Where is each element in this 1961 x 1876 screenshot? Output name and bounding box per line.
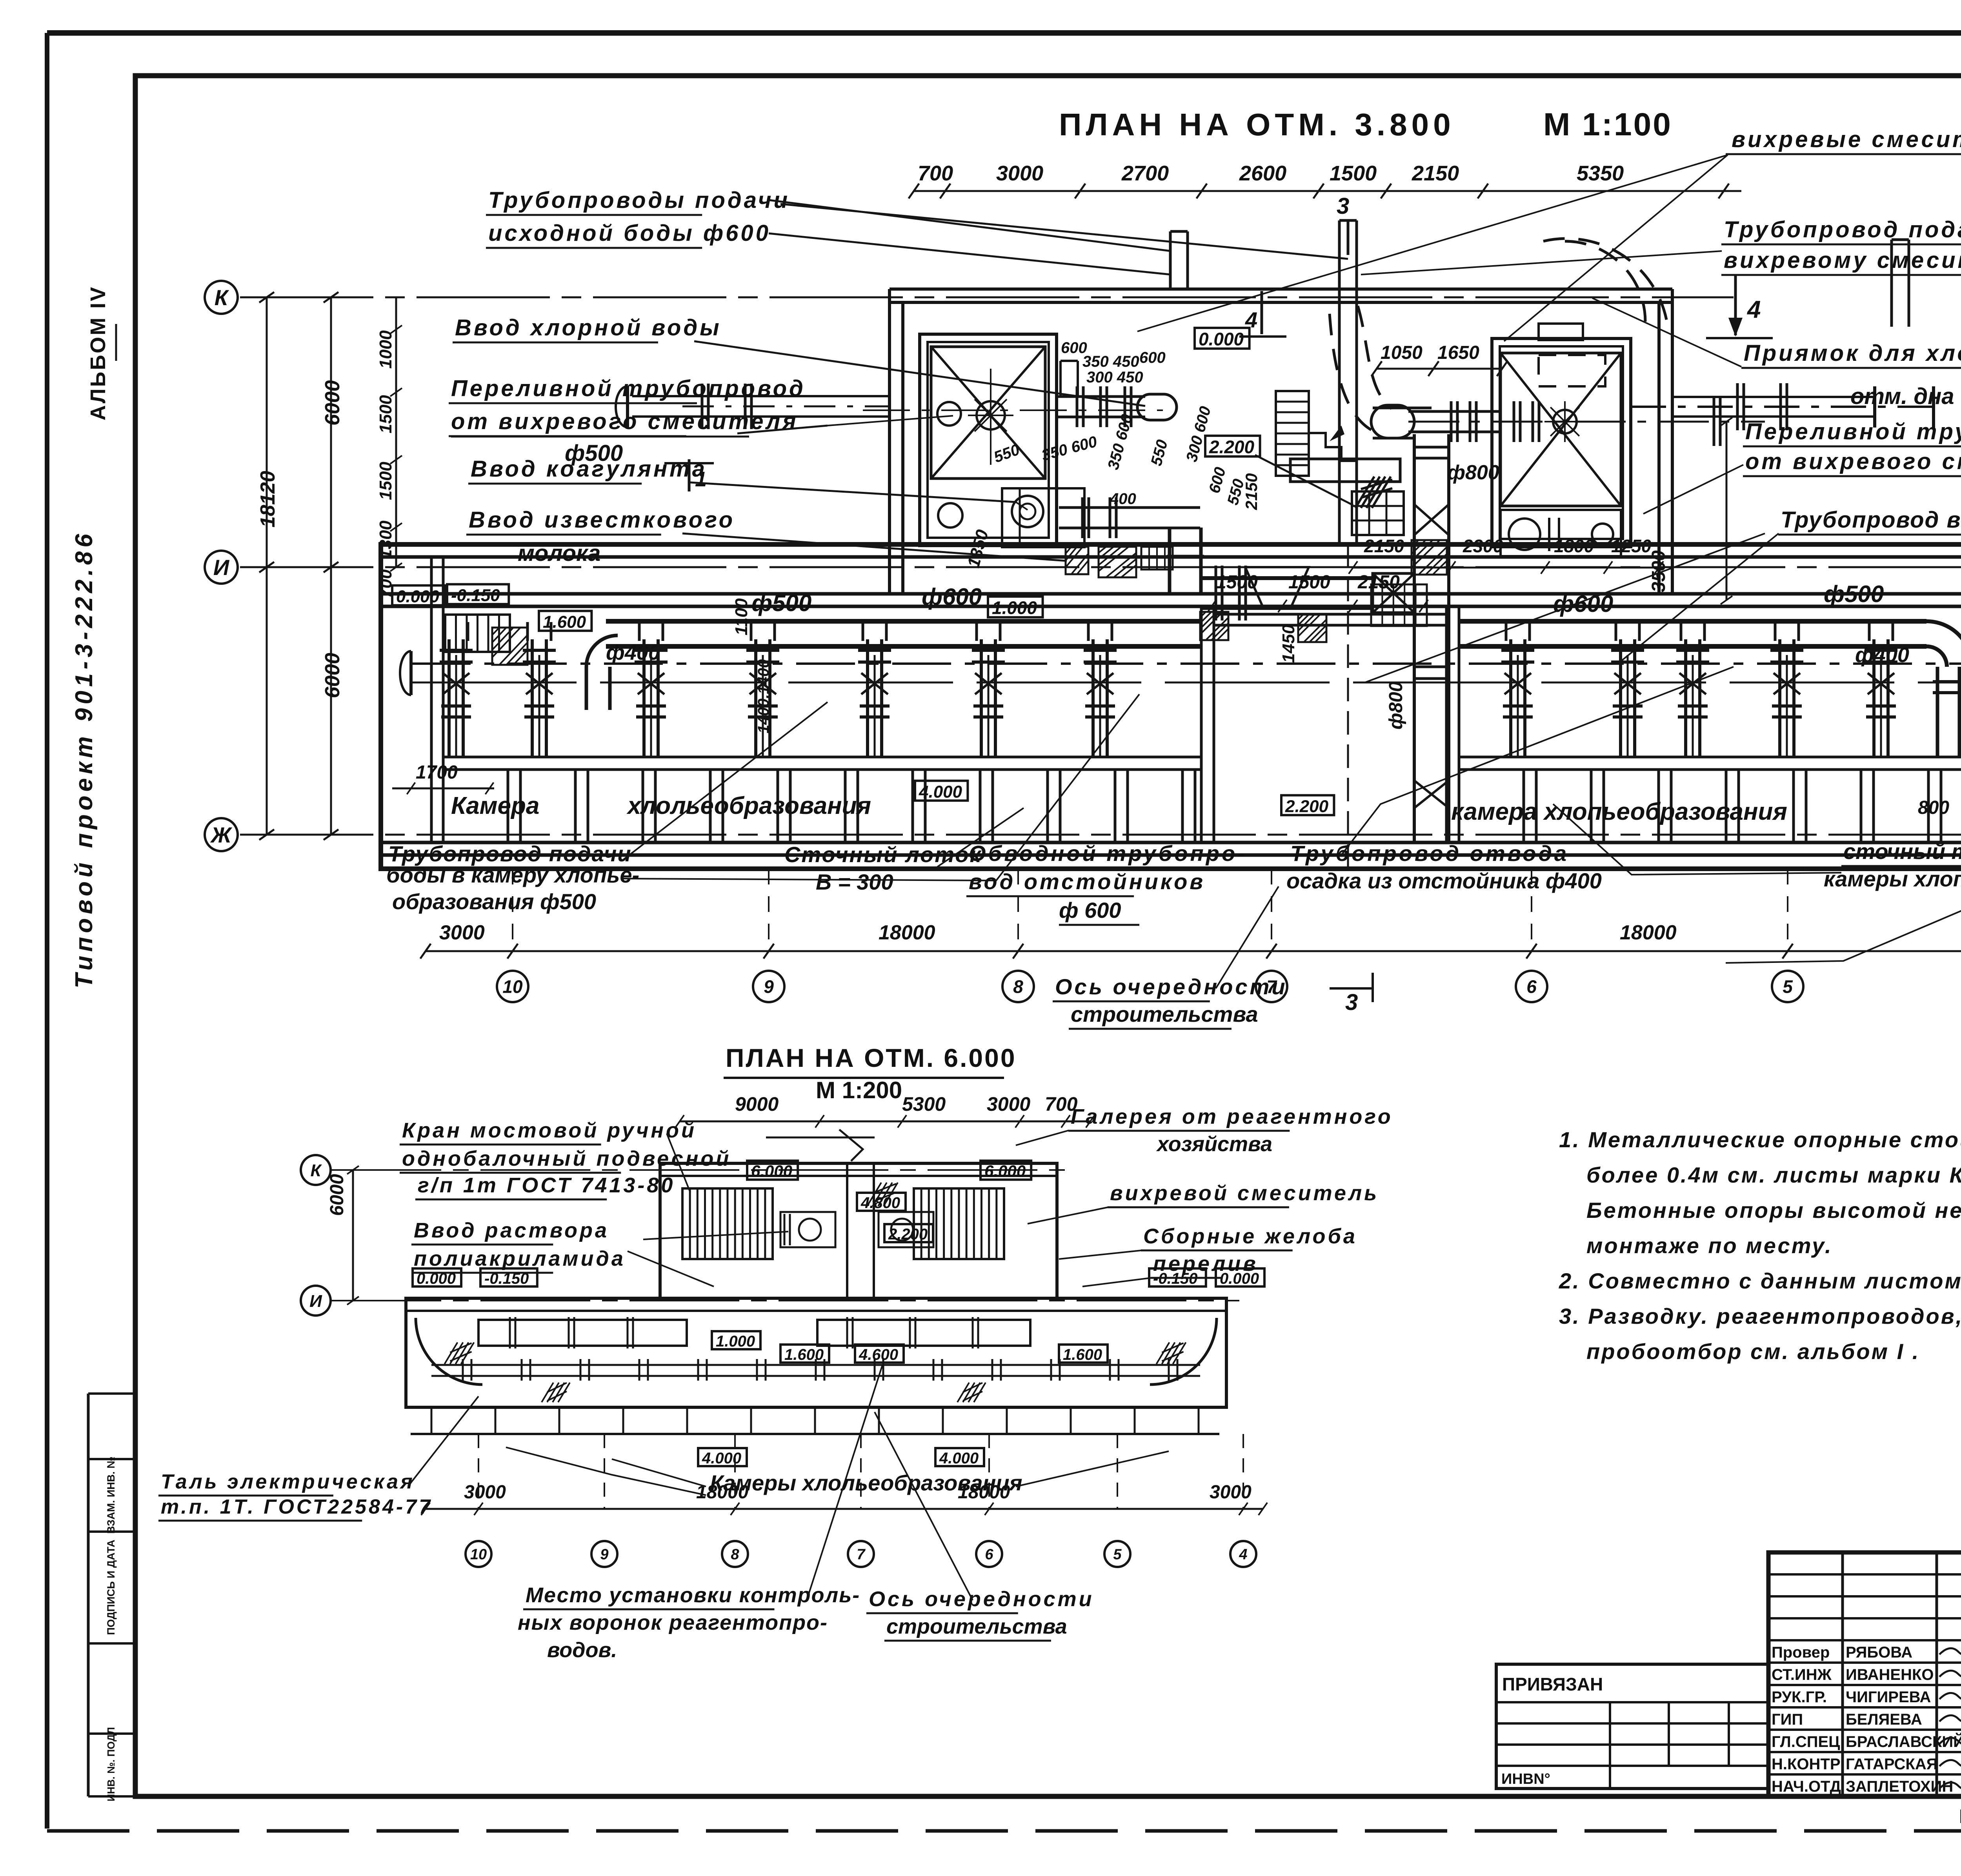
lower pipe run to center tee — [1201, 576, 1373, 580]
svg-text:3: 3 — [1337, 193, 1349, 219]
svg-text:4.600: 4.600 — [859, 1346, 898, 1363]
svg-text:вихревые смесители: вихревые смесители — [1732, 127, 1961, 152]
svg-text:Камеры хлольеобразования: Камеры хлольеобразования — [710, 1470, 1022, 1495]
svg-text:3000: 3000 — [1210, 1482, 1252, 1503]
svg-text:БРАСЛАВСКИЙ: БРАСЛАВСКИЙ — [1846, 1732, 1961, 1750]
svg-text:6000: 6000 — [321, 380, 344, 426]
svg-text:водов.: водов. — [547, 1638, 617, 1662]
svg-text:Трубопроводы подачи: Трубопроводы подачи — [488, 187, 790, 213]
elevation box 1.000 — [988, 597, 1043, 617]
svg-text:7: 7 — [857, 1547, 866, 1563]
svg-text:1.600: 1.600 — [784, 1346, 824, 1363]
svg-text:БЕЛЯЕВА: БЕЛЯЕВА — [1846, 1711, 1922, 1728]
svg-text:ф800: ф800 — [1386, 681, 1406, 730]
elevation boxes basin left — [392, 586, 445, 606]
center vertical line through basin — [1347, 544, 1349, 869]
stairs at center — [1276, 391, 1309, 476]
plan2 top dimension line — [680, 1121, 1090, 1123]
svg-text:КОПИРОВАЛ: КОРШУНОВА: КОПИРОВАЛ: КОРШУНОВА — [1959, 1805, 1961, 1827]
svg-text:РЯБОВА: РЯБОВА — [1846, 1644, 1912, 1661]
svg-text:камера хлопьеобразования: камера хлопьеобразования — [1451, 798, 1787, 825]
plan2 basin corner arc left — [416, 1318, 482, 1385]
sheet outer border — [47, 30, 1961, 36]
svg-text:1.600: 1.600 — [543, 612, 586, 631]
plan2 axis circles — [466, 1541, 491, 1567]
svg-text:Ж: Ж — [210, 822, 233, 847]
svg-text:Трубопровод отвода: Трубопровод отвода — [1290, 841, 1569, 866]
svg-text:И: И — [309, 1292, 322, 1311]
plan1 left vertical dimension chain — [266, 297, 268, 835]
vortex mixer left - tank with X bracing — [931, 347, 1045, 479]
riser pipe left of center — [1169, 231, 1172, 289]
plan2 vertical dim 6000 — [352, 1170, 354, 1301]
plan2 hatchmarks — [445, 1343, 458, 1364]
svg-text:вихревой смеситель: вихревой смеситель — [1110, 1181, 1379, 1205]
svg-text:6: 6 — [985, 1547, 993, 1563]
svg-text:ИВАНЕНКО: ИВАНЕНКО — [1846, 1666, 1934, 1683]
plan1 axis number circles — [497, 971, 528, 1002]
svg-text:4.000: 4.000 — [919, 782, 962, 801]
leader lines raw water — [769, 233, 1171, 275]
plan2 crane beam left (hatched) — [682, 1188, 773, 1259]
chlorine pit (dashed) — [1539, 324, 1583, 340]
elevation boxes basin bottom — [915, 781, 968, 801]
svg-text:Приямок для хлоропроводов: Приямок для хлоропроводов — [1744, 340, 1961, 366]
svg-text:образования ф500: образования ф500 — [392, 889, 596, 914]
right riser pipe — [1890, 240, 1893, 327]
chamber partition combs left — [507, 770, 509, 842]
small ladder below mixer — [1141, 547, 1173, 570]
plan2 gallery break line — [839, 1130, 863, 1161]
svg-text:1.000: 1.000 — [992, 598, 1037, 618]
svg-text:6.000: 6.000 — [751, 1162, 792, 1180]
svg-text:8: 8 — [1013, 977, 1023, 997]
svg-text:Типовой проект 901-3-222.86: Типовой проект 901-3-222.86 — [71, 530, 98, 988]
svg-text:ПОДПИСЬ И ДАТА: ПОДПИСЬ И ДАТА — [105, 1539, 117, 1635]
svg-text:Ввод коагулянта: Ввод коагулянта — [471, 456, 707, 482]
svg-text:сточный трубопровод из: сточный трубопровод из — [1843, 839, 1961, 864]
vortex mixer left - inlet circle — [937, 402, 961, 426]
svg-text:2150: 2150 — [1357, 572, 1400, 593]
svg-text:6000: 6000 — [327, 1174, 347, 1216]
svg-text:1700: 1700 — [416, 762, 458, 783]
svg-text:4: 4 — [1746, 296, 1761, 323]
svg-text:Переливной трубопровод: Переливной трубопровод — [1745, 419, 1961, 444]
svg-text:1050: 1050 — [1381, 342, 1423, 363]
center riser pipe (section 3) — [1338, 220, 1341, 544]
plan2 upper structure outline — [660, 1163, 1057, 1298]
svg-text:Место установки контроль-: Место установки контроль- — [526, 1583, 860, 1607]
elevation box 2.200 plan2 — [884, 1224, 933, 1242]
svg-text:Переливной трубопровод: Переливной трубопровод — [451, 376, 806, 401]
svg-text:600: 600 — [1139, 349, 1166, 366]
axis Zh circle — [205, 818, 238, 851]
left mixer outlet pipe to stadium header — [1058, 395, 1145, 398]
plan2 internal pipe left loop — [478, 1320, 687, 1346]
svg-text:2150: 2150 — [1242, 473, 1261, 510]
svg-text:М 1:100: М 1:100 — [1543, 107, 1672, 142]
chamber row top line — [443, 756, 1201, 759]
svg-text:1450: 1450 — [1279, 624, 1298, 663]
svg-text:2700: 2700 — [1121, 162, 1169, 185]
svg-text:пробоотбор см. альбом I .: пробоотбор см. альбом I . — [1586, 1339, 1920, 1364]
axis K line — [240, 297, 1734, 298]
svg-text:осадка из отстойника ф400: осадка из отстойника ф400 — [1286, 868, 1602, 893]
dimension 1050-1650 over right mixer — [1377, 368, 1502, 370]
svg-text:4.800: 4.800 — [860, 1194, 900, 1212]
central grid box — [1352, 491, 1404, 535]
svg-text:Галерея от реагентного: Галерея от реагентного — [1071, 1105, 1393, 1128]
vortex mixer left - drain circle — [938, 503, 962, 528]
svg-text:Ввод известкового: Ввод известкового — [469, 507, 735, 533]
plan2 grid hatch left — [867, 1183, 881, 1206]
svg-text:вод отстойников: вод отстойников — [969, 869, 1205, 894]
svg-text:АЛЬБОМ ІV: АЛЬБОМ ІV — [86, 286, 110, 420]
svg-text:ГЛ.СПЕЦ: ГЛ.СПЕЦ — [1772, 1733, 1840, 1750]
main pipe left half (f500-f600) — [606, 619, 1201, 624]
leaders drain pipe — [1553, 804, 1841, 875]
svg-text:Кран мостовой ручной: Кран мостовой ручной — [402, 1119, 697, 1142]
basin outer walls — [381, 544, 1961, 869]
svg-text:1500: 1500 — [1216, 572, 1258, 593]
basin left end wall — [430, 557, 433, 842]
svg-text:1500: 1500 — [376, 462, 395, 500]
svg-text:хлольеобразования: хлольеобразования — [626, 792, 871, 819]
vortex mixer left - pump block — [1002, 488, 1084, 547]
left margin bottom stamp table — [87, 1394, 90, 1796]
svg-text:5350: 5350 — [1577, 162, 1624, 185]
svg-text:М 1:200: М 1:200 — [816, 1077, 902, 1103]
dim 1700 left — [392, 788, 494, 790]
svg-text:Трубопровод подачи боды к: Трубопровод подачи боды к — [1724, 217, 1961, 242]
svg-text:6: 6 — [1526, 977, 1537, 997]
svg-text:18120: 18120 — [256, 471, 279, 528]
main pipe right half (f600-f500) — [1459, 619, 1926, 624]
plan2 lower pipe rows — [431, 1364, 1200, 1366]
plan1 bottom dimension line — [426, 950, 1961, 952]
svg-text:хозяйства: хозяйства — [1156, 1132, 1272, 1156]
sheet outer border bottom (ragged) — [47, 1829, 1961, 1833]
elevation box 0.000 upper — [1195, 328, 1250, 349]
basin center-right wall — [1445, 606, 1448, 842]
svg-text:от вихревого смесителя ф500: от вихревого смесителя ф500 — [1745, 449, 1961, 474]
svg-text:Ось очередности: Ось очередности — [1055, 974, 1288, 999]
svg-text:1650: 1650 — [1437, 342, 1479, 363]
svg-text:перелив: перелив — [1153, 1252, 1258, 1276]
svg-text:РУК.ГР.: РУК.ГР. — [1772, 1689, 1827, 1706]
svg-text:2. Совместно с данным лист: 2. Совместно с данным листом см. л. ТХ -… — [1559, 1268, 1961, 1293]
svg-text:4.000: 4.000 — [939, 1450, 979, 1467]
svg-text:от вихревого смесителя: от вихревого смесителя — [451, 409, 798, 434]
central overflow collector — [1290, 459, 1400, 482]
svg-text:550: 550 — [991, 441, 1022, 466]
dashed elbow from center riser to f800 — [1358, 306, 1392, 409]
leader cross lines left mixer — [828, 416, 953, 426]
svg-text:Сточный лоток: Сточный лоток — [784, 842, 982, 867]
svg-text:строительства: строительства — [886, 1615, 1067, 1638]
plan2 internal pipe right loop — [817, 1320, 1030, 1346]
svg-text:ПЛАН НА ОТМ. 6.000: ПЛАН НА ОТМ. 6.000 — [726, 1043, 1017, 1072]
collector axis line f400 (dash-dot) — [412, 662, 1961, 665]
svg-text:Трубопровод визуального набл: Трубопровод визуального наблюдения за вы… — [1781, 507, 1961, 533]
vortex mixer left - pump with spiral — [1012, 496, 1043, 527]
mixer hall right wall — [1671, 289, 1674, 594]
vortex mixer right - pump room — [1501, 510, 1621, 556]
pipe f800 vertical — [1413, 434, 1416, 842]
svg-text:ЗАПЛЕТОХИН: ЗАПЛЕТОХИН — [1846, 1778, 1953, 1795]
title block signature grid rows — [1768, 1573, 1961, 1576]
svg-text:полиакриламида: полиакриламида — [414, 1247, 626, 1270]
svg-text:Ввод раствора: Ввод раствора — [414, 1219, 609, 1242]
vortex mixer right - inlet pipe with flanges — [1408, 410, 1501, 413]
overflow elbow cap right mixer — [1371, 405, 1414, 438]
svg-text:700: 700 — [918, 162, 953, 185]
vortex mixer right - outer walls — [1492, 338, 1631, 547]
left mixer lower outlet pipe — [1059, 506, 1200, 509]
svg-text:Ось очередности: Ось очередности — [869, 1587, 1094, 1611]
svg-text:ВЗАМ. ИНВ. №: ВЗАМ. ИНВ. № — [105, 1457, 117, 1534]
left mixer riser stub — [1059, 361, 1062, 396]
leaders drain tray — [937, 808, 1024, 867]
dashed elbow pipe f800 top right — [1565, 241, 1645, 322]
basin center-left wall — [1200, 606, 1203, 842]
plan2 axis K circle — [301, 1155, 331, 1185]
rotated dim 3500 — [1726, 422, 1728, 600]
svg-text:9: 9 — [764, 977, 774, 997]
right mixer centerline dash-dot — [1408, 421, 1765, 423]
svg-text:3000: 3000 — [996, 162, 1043, 185]
plan2 basin corner arc right — [1150, 1318, 1217, 1385]
svg-text:однобалочный подвесной: однобалочный подвесной — [402, 1147, 731, 1170]
svg-text:8: 8 — [731, 1547, 739, 1563]
svg-text:строительства: строительства — [1071, 1002, 1258, 1026]
svg-text:2.200: 2.200 — [1285, 797, 1329, 816]
svg-text:монтаже по месту.: монтаже по месту. — [1586, 1233, 1833, 1258]
svg-text:ф 600: ф 600 — [1059, 898, 1121, 923]
svg-text:Бетонные опоры высотой нене: Бетонные опоры высотой ненее о.4м устана… — [1586, 1198, 1961, 1223]
plan2 equipment right — [879, 1212, 933, 1247]
svg-text:К: К — [310, 1161, 322, 1180]
svg-text:3000: 3000 — [439, 921, 485, 944]
plan2 bottom dim line — [426, 1508, 1263, 1510]
svg-text:Ввод хлорной воды: Ввод хлорной воды — [455, 315, 722, 340]
svg-text:1.000: 1.000 — [716, 1333, 755, 1350]
left mixer drop pipe to lower run — [1168, 528, 1172, 593]
svg-text:1500: 1500 — [1330, 162, 1377, 185]
plan1 secondary vertical dim chain — [395, 297, 397, 567]
overflow pipe right (dash-dot) — [1631, 406, 1934, 408]
svg-text:350 600: 350 600 — [1104, 412, 1136, 471]
svg-text:молока: молока — [518, 540, 600, 566]
plan2 axis I circle — [301, 1286, 331, 1316]
svg-text:10: 10 — [502, 977, 523, 997]
svg-text:6000: 6000 — [321, 653, 344, 698]
vortex mixer right - vortex unit — [1553, 410, 1577, 433]
vortex mixer left - outer walls — [920, 334, 1057, 546]
svg-text:1500: 1500 — [376, 395, 395, 433]
ladder right of center bottom — [1371, 584, 1427, 626]
svg-text:боды в камеру хлопье-: боды в камеру хлопье- — [386, 862, 639, 887]
mixer centerline horizontal — [863, 409, 1163, 411]
svg-text:И: И — [213, 555, 230, 580]
svg-text:3000: 3000 — [987, 1093, 1030, 1115]
svg-text:4: 4 — [1239, 1547, 1247, 1563]
svg-text:1500: 1500 — [1288, 572, 1330, 593]
svg-text:9000: 9000 — [735, 1093, 779, 1115]
svg-text:В = 300: В = 300 — [816, 870, 893, 894]
mixer hall left wall — [888, 289, 891, 594]
svg-text:300 450: 300 450 — [1086, 369, 1143, 386]
svg-text:2.200: 2.200 — [888, 1226, 928, 1243]
svg-text:ГИП: ГИП — [1772, 1711, 1803, 1728]
svg-text:4: 4 — [1245, 308, 1257, 332]
svg-text:ных воронок реагентопро-: ных воронок реагентопро- — [518, 1611, 828, 1634]
svg-text:0.000: 0.000 — [1199, 329, 1244, 349]
plan2 elevation boxes row — [413, 1268, 461, 1286]
section mark 4 right — [1734, 275, 1737, 335]
section mark 4 left — [1261, 291, 1263, 334]
vortex mixer left - vortex unit — [977, 401, 1005, 429]
svg-text:18000: 18000 — [1620, 921, 1677, 944]
svg-text:400: 400 — [1110, 490, 1136, 508]
axis I line — [240, 566, 1961, 568]
svg-text:6.000: 6.000 — [984, 1162, 1026, 1180]
title block outer — [1768, 1552, 1961, 1796]
svg-text:1350: 1350 — [964, 528, 992, 570]
svg-text:Н.КОНТР: Н.КОНТР — [1772, 1756, 1841, 1773]
svg-text:3000: 3000 — [464, 1482, 506, 1503]
svg-text:18000: 18000 — [879, 921, 935, 944]
center section walls — [1214, 613, 1446, 616]
vortex mixer right - tank with X bracing — [1501, 353, 1621, 506]
plan2 upper structure center gap walls — [846, 1163, 848, 1298]
section mark 3 bottom — [1330, 987, 1373, 990]
axis I circle — [205, 551, 238, 584]
valve drop assemblies — [448, 639, 451, 757]
svg-text:600: 600 — [1206, 465, 1229, 495]
basin second wall — [381, 592, 1961, 596]
title block signature grid verticals — [1841, 1552, 1844, 1796]
svg-text:НАЧ.ОТД: НАЧ.ОТД — [1772, 1778, 1841, 1795]
svg-text:г/п 1т ГОСТ 7413-80: г/п 1т ГОСТ 7413-80 — [418, 1174, 675, 1197]
svg-text:Сборные желоба: Сборные желоба — [1143, 1225, 1357, 1248]
svg-text:ПРИВЯЗАН: ПРИВЯЗАН — [1502, 1674, 1603, 1694]
stadium header left — [1137, 394, 1177, 420]
hatch marks near center — [1355, 477, 1374, 508]
svg-text:800: 800 — [1918, 797, 1949, 818]
svg-text:исходной боды ф600: исходной боды ф600 — [488, 220, 771, 246]
svg-text:5: 5 — [1113, 1547, 1122, 1563]
svg-text:-0.150: -0.150 — [451, 586, 500, 605]
svg-text:отм. дна -1.850: отм. дна -1.850 — [1850, 384, 1961, 409]
svg-text:ф800: ф800 — [1447, 461, 1499, 484]
svg-text:ф600: ф600 — [1553, 591, 1613, 617]
svg-text:550: 550 — [1148, 438, 1171, 468]
svg-text:вихревому смесителю ф600: вихревому смесителю ф600 — [1724, 247, 1961, 273]
svg-text:ИНВ. №. ПОДЛ: ИНВ. №. ПОДЛ — [105, 1727, 117, 1801]
svg-text:2.200: 2.200 — [1209, 437, 1255, 457]
svg-text:Таль электрическая: Таль электрическая — [161, 1470, 415, 1493]
svg-text:1100: 1100 — [732, 598, 751, 635]
hatch boxes below mixers — [1066, 547, 1088, 574]
svg-text:5300: 5300 — [902, 1093, 946, 1115]
svg-text:ИНВN°: ИНВN° — [1501, 1771, 1550, 1787]
chamber partition combs right — [1523, 770, 1525, 842]
svg-text:ГАТАРСКАЯ: ГАТАРСКАЯ — [1846, 1756, 1937, 1773]
svg-text:Камера: Камера — [451, 792, 539, 819]
svg-text:К: К — [215, 285, 229, 310]
svg-text:1.600: 1.600 — [1063, 1346, 1102, 1363]
center tee cross box — [1373, 573, 1414, 613]
svg-text:1000: 1000 — [376, 330, 395, 369]
svg-text:Обводной трубопро-: Обводной трубопро- — [969, 841, 1247, 866]
svg-text:350 450: 350 450 — [1082, 353, 1139, 370]
svg-text:1. Металлические опорные ст: 1. Металлические опорные стойки и бетонн… — [1559, 1127, 1961, 1152]
collector end cap left — [409, 651, 413, 695]
basin bottom wall lines — [381, 841, 1961, 844]
section mark 1 left — [688, 459, 691, 491]
svg-text:камеры хлопьеобразования ф20: камеры хлопьеобразования ф200 — [1824, 866, 1961, 891]
central funnel left — [1245, 567, 1309, 609]
plan2 equipment left — [780, 1212, 835, 1247]
plan1 top dimension line — [914, 190, 1741, 192]
svg-text:Провер: Провер — [1772, 1644, 1830, 1661]
svg-text:10: 10 — [470, 1547, 487, 1563]
stepped platform — [1309, 433, 1357, 476]
overflow pipe left (dash-dot) — [632, 395, 890, 397]
svg-text:ПЛАН НА ОТМ. 3.800: ПЛАН НА ОТМ. 3.800 — [1059, 107, 1455, 142]
svg-text:СТ.ИНЖ: СТ.ИНЖ — [1772, 1666, 1832, 1683]
svg-text:более 0.4м см. листы марки: более 0.4м см. листы марки КМ и КЖ. — [1586, 1163, 1961, 1187]
hatch box basin left — [492, 628, 528, 665]
title block left extension (Privyazan) — [1496, 1664, 1768, 1789]
svg-text:ф600: ф600 — [922, 584, 982, 610]
hatch boxes center of basin — [1200, 612, 1228, 640]
axis K circle — [205, 281, 238, 314]
svg-text:0.000: 0.000 — [396, 587, 440, 606]
svg-text:т.п. 1Т. ГОСТ22584-77: т.п. 1Т. ГОСТ22584-77 — [161, 1496, 433, 1518]
basin top wall inner line — [381, 555, 1961, 559]
svg-text:2150: 2150 — [1412, 162, 1459, 185]
plan2 basin outline — [406, 1298, 1226, 1407]
svg-text:ЧИГИРЕВА: ЧИГИРЕВА — [1846, 1689, 1931, 1706]
elevation boxes 6.000 — [747, 1161, 798, 1179]
svg-text:5: 5 — [1783, 977, 1793, 997]
svg-text:ф500: ф500 — [1824, 581, 1884, 607]
svg-text:9: 9 — [600, 1547, 608, 1563]
svg-text:2600: 2600 — [1239, 162, 1286, 185]
stairs basin left end — [445, 615, 510, 652]
plan2 basin bottom chambers — [411, 1406, 1219, 1408]
elevation box 2.200 — [1205, 436, 1260, 457]
mixer hall upper wall — [890, 287, 1672, 291]
elevation box 4.800 — [857, 1193, 906, 1211]
svg-text:3: 3 — [1345, 990, 1358, 1015]
svg-text:ф500: ф500 — [751, 590, 811, 616]
mixer centerline vertical — [990, 369, 991, 467]
axis Zh line — [240, 834, 1961, 836]
svg-text:3. Разводку. реагентопроводов,: 3. Разводку. реагентопроводов, технологи… — [1559, 1304, 1961, 1328]
plan2 crane beam right (hatched) — [914, 1188, 1004, 1259]
